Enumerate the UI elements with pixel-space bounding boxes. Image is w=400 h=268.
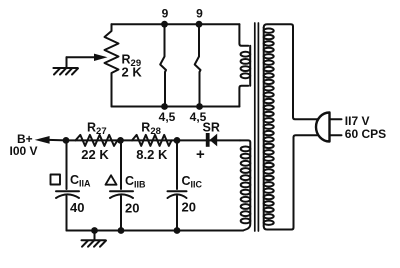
svg-text:I00 V: I00 V	[10, 144, 38, 158]
node junction dot (C11C bottom)	[174, 227, 181, 234]
capacitor C11B	[110, 140, 133, 230]
symbol triangle (C11B marker)	[106, 175, 117, 184]
node 9 (left junction dot)	[161, 21, 168, 28]
svg-text:8.2 K: 8.2 K	[136, 147, 168, 162]
svg-text:CIIC: CIIC	[182, 174, 203, 190]
wire ground rail (bottom)	[67, 230, 244, 232]
plug prong (bottom)	[330, 134, 342, 136]
svg-text:9: 9	[162, 7, 169, 21]
transformer T1 bottom secondary (HV winding)	[240, 140, 250, 230]
wire bottom 4,5 rail	[112, 106, 240, 108]
node 4,5 (right junction dot)	[196, 103, 203, 110]
svg-text:CIIB: CIIB	[125, 174, 146, 190]
resistor R28	[132, 135, 172, 146]
svg-text:+: +	[196, 146, 205, 163]
plug prong (top)	[330, 118, 342, 120]
wire wiper arm	[67, 56, 97, 58]
capacitor C11A	[56, 140, 79, 230]
wire B+ rail	[66, 139, 240, 141]
tube heater filament V2 pins 9 / 4,5	[195, 24, 201, 106]
node 4,5 (left junction dot)	[161, 103, 168, 110]
wiper arrow of R29	[94, 54, 108, 61]
wire heater rail to transformer top secondary	[239, 24, 248, 46]
tube heater filament V1 pins 9 / 4,5	[160, 24, 166, 106]
svg-text:4,5: 4,5	[159, 110, 176, 124]
svg-text:CIIA: CIIA	[70, 173, 91, 189]
svg-text:9: 9	[196, 7, 203, 21]
svg-text:II7 V: II7 V	[345, 114, 370, 128]
node B+ output arrow	[35, 136, 50, 144]
transformer T1 core	[255, 23, 259, 231]
transformer T1 top secondary (heater winding)	[241, 46, 251, 86]
diode SR (selenium rectifier)	[206, 133, 217, 147]
node junction dot (C11A top)	[63, 137, 70, 144]
node junction dot (C11C top)	[174, 137, 181, 144]
svg-text:20: 20	[182, 200, 196, 215]
wire top rail (heater 9 rail)	[112, 23, 240, 25]
wire ground stem	[66, 57, 68, 68]
node junction dot (C11B top)	[117, 137, 124, 144]
resistor R29 (potentiometer)	[105, 24, 119, 106]
ground (left, chassis)	[53, 68, 78, 75]
wire B+ to first node	[49, 139, 67, 142]
wire 4,5 rail to transformer top secondary	[239, 86, 248, 107]
transformer T1 primary winding	[264, 24, 318, 229]
svg-text:60 CPS: 60 CPS	[345, 127, 386, 141]
symbol square (C11A marker)	[51, 175, 61, 185]
node junction dot (C11B bottom)	[118, 227, 125, 234]
node ground junction dot	[91, 227, 98, 234]
svg-text:2 K: 2 K	[122, 65, 143, 80]
svg-text:SR: SR	[203, 121, 220, 135]
capacitor C11C	[168, 140, 187, 230]
svg-text:20: 20	[125, 201, 139, 216]
AC plug P1	[316, 113, 329, 142]
svg-text:40: 40	[70, 200, 84, 215]
resistor R27	[76, 135, 118, 146]
node 9 (right junction dot)	[196, 21, 203, 28]
ground (bottom, chassis)	[82, 231, 107, 247]
svg-text:22 K: 22 K	[81, 147, 109, 162]
